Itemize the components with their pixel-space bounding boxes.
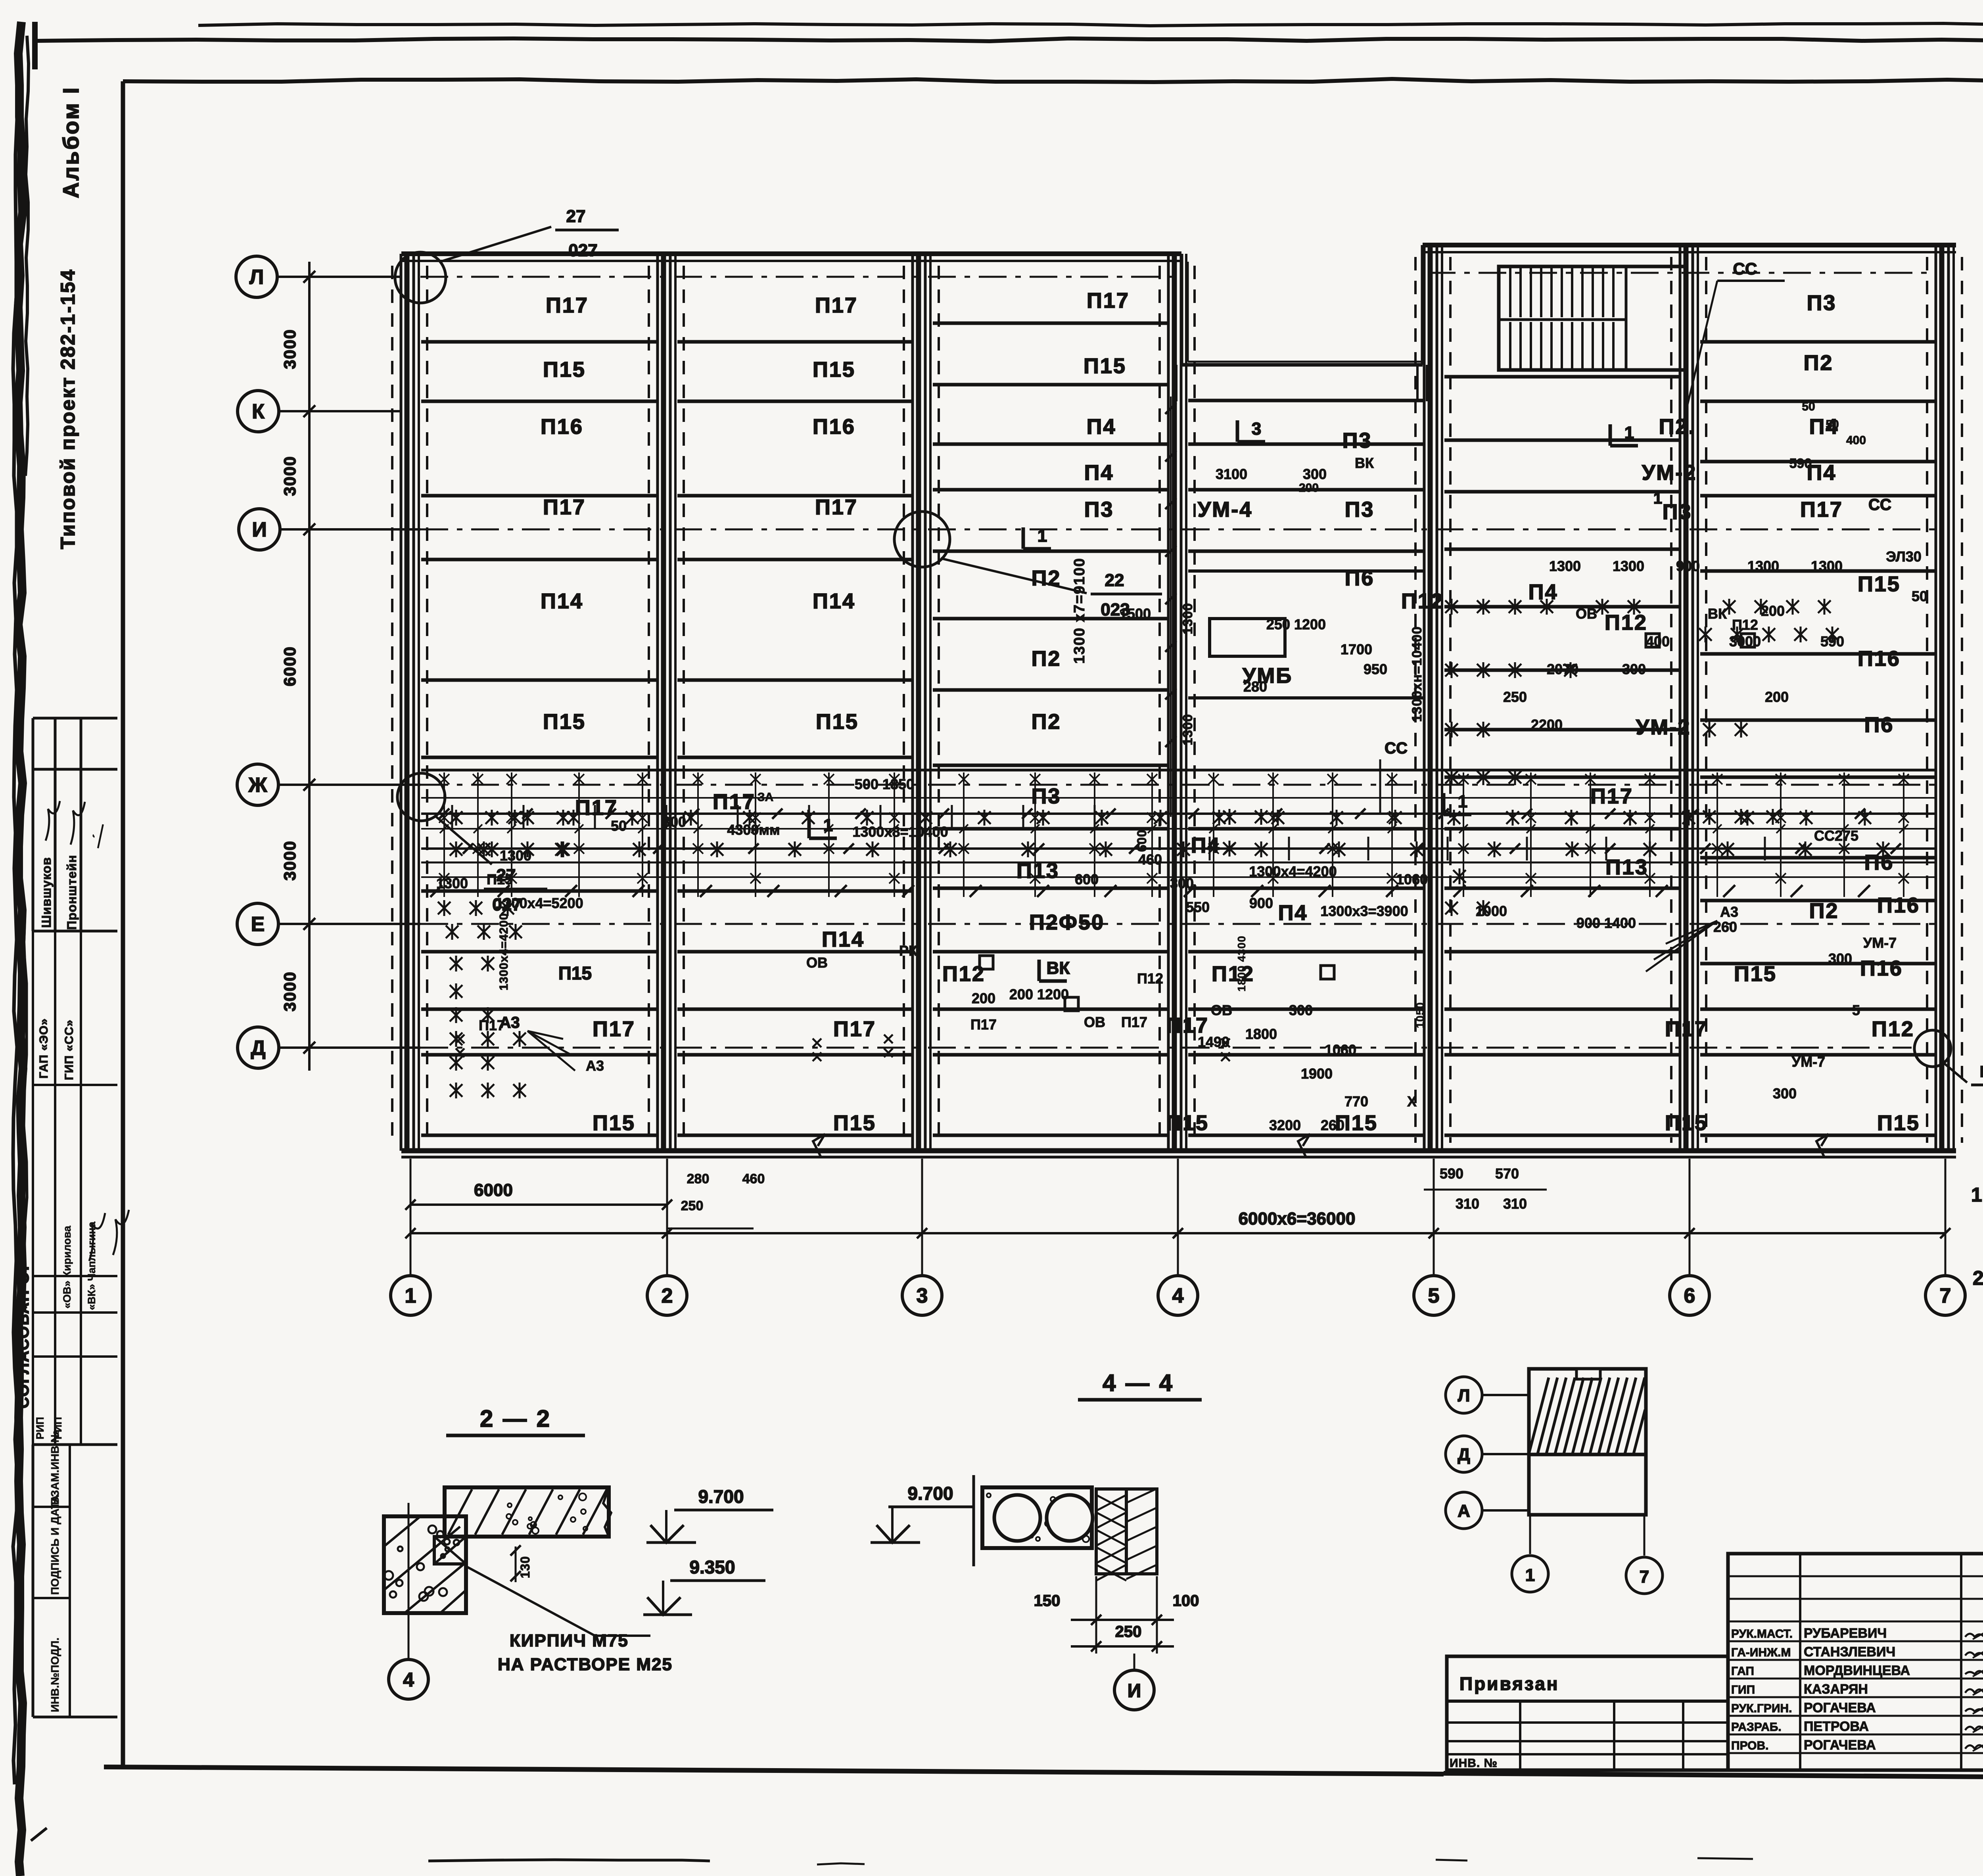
x cross pairs below D row — [813, 1039, 821, 1047]
svg-text:200: 200 — [1761, 603, 1785, 619]
svg-text:200: 200 — [972, 990, 995, 1006]
svg-text:П15: П15 — [1734, 962, 1777, 986]
slab joint lines bay 2 — [677, 340, 911, 344]
svg-text:300: 300 — [1303, 466, 1327, 482]
svg-text:3000: 3000 — [280, 840, 299, 880]
detail circle corner L1 with 27/027 — [395, 252, 446, 303]
plan top outer wall axis L segment 1 — [401, 251, 1181, 256]
svg-text:1.СЕЧЕНИЯ ПО МОНОЛИТНЫМ УЧА: 1.СЕЧЕНИЯ ПО МОНОЛИТНЫМ УЧАСТКАМ — [1971, 1184, 1983, 1206]
svg-text:П12: П12 — [1401, 589, 1444, 613]
svg-text:100: 100 — [1173, 1592, 1199, 1610]
svg-text:НА РАСТВОРЕ М25: НА РАСТВОРЕ М25 — [498, 1655, 673, 1674]
svg-text:А: А — [1458, 1501, 1470, 1521]
svg-text:50: 50 — [1802, 400, 1815, 413]
middle band extra thin lines — [421, 797, 1935, 799]
svg-text:П17: П17 — [1800, 498, 1843, 521]
svg-text:ГИП «СС»: ГИП «СС» — [63, 1019, 76, 1080]
svg-text:1300: 1300 — [1180, 603, 1195, 634]
svg-text:П12: П12 — [1212, 962, 1254, 986]
svg-text:2 — 2: 2 — 2 — [480, 1405, 551, 1432]
svg-text:СТАНЗЛЕВИЧ: СТАНЗЛЕВИЧ — [1804, 1644, 1895, 1659]
axis circle I — [239, 509, 280, 550]
svg-text:П16: П16 — [1860, 956, 1903, 980]
svg-text:И: И — [252, 518, 267, 541]
svg-text:2: 2 — [662, 1284, 673, 1307]
svg-text:Л: Л — [249, 266, 264, 289]
svg-text:П12: П12 — [1605, 611, 1647, 634]
key plan hatched upper — [1529, 1378, 1549, 1454]
svg-text:9.700: 9.700 — [698, 1486, 744, 1507]
svg-text:2070: 2070 — [1547, 661, 1578, 677]
svg-text:Альбом I: Альбом I — [58, 86, 83, 198]
key plan axis circle L2 — [1446, 1377, 1482, 1413]
svg-text:СС: СС — [1733, 259, 1757, 278]
svg-text:П15: П15 — [833, 1111, 876, 1135]
svg-text:1: 1 — [1624, 423, 1634, 443]
svg-text:МОРДВИНЦЕВА: МОРДВИНЦЕВА — [1804, 1663, 1910, 1678]
sheet inner frame — [121, 81, 125, 1769]
svg-text:УМ-2: УМ-2 — [1642, 461, 1697, 485]
svg-text:П14: П14 — [822, 927, 865, 951]
svg-text:П12: П12 — [1137, 970, 1163, 987]
svg-text:УМ-7: УМ-7 — [1863, 935, 1897, 951]
svg-text:А3: А3 — [586, 1058, 604, 1074]
wall axis 4 — [1167, 254, 1170, 1151]
svg-text:«ОВ» Кирилова: «ОВ» Кирилова — [61, 1225, 73, 1309]
svg-text:6: 6 — [1684, 1284, 1695, 1307]
svg-text:6000х6=36000: 6000х6=36000 — [1239, 1209, 1356, 1228]
svg-text:300: 300 — [1289, 1002, 1313, 1018]
detail circle right end axis D — [1914, 1030, 1951, 1067]
svg-text:РИП: РИП — [34, 1417, 46, 1439]
svg-text:П4: П4 — [1278, 901, 1308, 925]
svg-text:Шившуков: Шившуков — [39, 857, 54, 928]
svg-text:300: 300 — [1828, 950, 1852, 967]
svg-text:П3: П3 — [1345, 498, 1375, 521]
section 2-2 top slab — [445, 1487, 609, 1537]
key plan bottom leaders — [1529, 1515, 1531, 1554]
section cut marks inside plan — [1236, 420, 1239, 442]
svg-text:400: 400 — [1846, 434, 1866, 447]
svg-text:1300: 1300 — [1180, 714, 1195, 745]
svg-text:«ВК» Чаплыгина: «ВК» Чаплыгина — [86, 1221, 98, 1310]
A3 leader fan bay5 — [1666, 921, 1717, 944]
svg-text:1: 1 — [405, 1284, 416, 1307]
svg-text:П2: П2 — [1809, 899, 1839, 923]
svg-text:2200: 2200 — [1531, 717, 1563, 733]
svg-text:ОВ: ОВ — [1211, 1002, 1232, 1018]
svg-text:П17: П17 — [575, 796, 618, 820]
svg-text:550: 550 — [1186, 899, 1210, 915]
svg-text:СС: СС — [1868, 496, 1891, 514]
svg-text:570: 570 — [1495, 1165, 1519, 1182]
svg-text:300: 300 — [1622, 661, 1646, 677]
section 4-4 hollowcore slab — [982, 1487, 1092, 1548]
svg-text:П6: П6 — [1345, 566, 1375, 590]
svg-text:ОВ: ОВ — [1084, 1014, 1105, 1030]
svg-text:П12: П12 — [1732, 617, 1758, 633]
svg-text:950: 950 — [1364, 661, 1387, 677]
svg-text:ВК: ВК — [1047, 958, 1070, 978]
svg-text:П3: П3 — [1807, 291, 1837, 315]
svg-text:П15: П15 — [1166, 1111, 1209, 1135]
monolith UMB outline bay 4 — [1188, 569, 1423, 573]
svg-text:5: 5 — [1852, 1002, 1860, 1018]
svg-text:П6: П6 — [1864, 851, 1894, 874]
torn paper top edge — [198, 23, 1983, 26]
svg-text:150: 150 — [1034, 1592, 1061, 1610]
svg-text:Д: Д — [1458, 1445, 1470, 1464]
svg-text:П17: П17 — [815, 293, 858, 317]
svg-text:П17: П17 — [1087, 289, 1130, 312]
left axis dimension line — [308, 262, 311, 1071]
axis circle J — [237, 764, 278, 805]
plan top notch wall — [1180, 254, 1183, 365]
svg-text:310: 310 — [1503, 1196, 1527, 1212]
axis number circles 1-7 — [391, 1276, 430, 1315]
svg-text:9.700: 9.700 — [907, 1483, 953, 1504]
svg-text:1900: 1900 — [1301, 1065, 1333, 1082]
svg-text:22: 22 — [1105, 571, 1124, 590]
svg-text:ОВ: ОВ — [1576, 606, 1597, 622]
svg-text:П15: П15 — [1665, 1111, 1708, 1135]
svg-text:200: 200 — [1765, 689, 1789, 705]
svg-text:И1-3: И1-3 — [1980, 1063, 1983, 1081]
svg-text:П16: П16 — [1858, 647, 1901, 671]
svg-text:П17: П17 — [1665, 1017, 1708, 1041]
svg-text:2.ОБЩИЕ ПРИМЕЧАНИЯ СМ. ЛИСТ: 2.ОБЩИЕ ПРИМЕЧАНИЯ СМ. ЛИСТ 29 — [1973, 1267, 1983, 1289]
personnel table — [1728, 1554, 1983, 1770]
svg-text:К: К — [252, 400, 265, 423]
middle band vertical cross columns — [443, 774, 445, 897]
bottom dimension line bay1 — [410, 1203, 667, 1206]
svg-text:ИНВ.№ПОДЛ.: ИНВ.№ПОДЛ. — [49, 1638, 61, 1712]
svg-text:П2: П2 — [1032, 710, 1061, 734]
svg-text:1300х8=10400: 1300х8=10400 — [852, 824, 948, 840]
svg-text:П15: П15 — [1084, 354, 1126, 378]
svg-text:СОГЛАСОВАН О:: СОГЛАСОВАН О: — [15, 1265, 32, 1408]
svg-text:П16: П16 — [541, 415, 583, 439]
svg-text:027: 027 — [492, 895, 521, 914]
axis E dashdot line — [420, 923, 1935, 925]
wall axis 6 — [1679, 245, 1682, 1151]
svg-text:4 — 4: 4 — 4 — [1103, 1370, 1174, 1396]
svg-text:1: 1 — [1525, 1566, 1535, 1585]
privyazan table — [1447, 1656, 1728, 1770]
svg-text:ПРОВ.: ПРОВ. — [1731, 1739, 1769, 1752]
svg-text:3: 3 — [917, 1284, 928, 1307]
svg-text:П17: П17 — [970, 1016, 997, 1033]
slab joint lines bay 6 — [1700, 340, 1935, 344]
svg-text:П17: П17 — [546, 293, 589, 317]
plan bottom outer wall — [401, 1148, 1956, 1154]
wall axis 7 — [1935, 245, 1937, 1151]
axis circle K — [238, 391, 279, 432]
svg-text:РАЗРАБ.: РАЗРАБ. — [1731, 1721, 1782, 1734]
svg-text:1060: 1060 — [1325, 1042, 1356, 1058]
svg-text:50: 50 — [1826, 418, 1839, 431]
svg-text:900 1400: 900 1400 — [1576, 915, 1636, 931]
svg-text:СС: СС — [1385, 740, 1408, 757]
svg-text:П17: П17 — [815, 495, 858, 519]
svg-text:П2: П2 — [1032, 647, 1061, 671]
svg-text:50: 50 — [1912, 588, 1927, 604]
svg-text:КАЗАРЯН: КАЗАРЯН — [1804, 1682, 1868, 1697]
svg-text:1300х4=4200: 1300х4=4200 — [497, 913, 510, 990]
svg-text:3000: 3000 — [280, 456, 299, 496]
svg-text:П13: П13 — [1016, 859, 1059, 883]
slab joint lines bay 1 — [421, 340, 656, 344]
svg-text:ГИП: ГИП — [1731, 1683, 1755, 1696]
svg-text:П17: П17 — [713, 790, 756, 814]
svg-text:Е: Е — [251, 913, 265, 936]
margin stamp table upper — [33, 717, 117, 720]
svg-text:П3: П3 — [1663, 500, 1692, 524]
svg-text:900: 900 — [1249, 895, 1273, 911]
svg-text:УМ-2: УМ-2 — [1636, 715, 1691, 739]
svg-text:П4: П4 — [1087, 415, 1116, 439]
slab joint lines bay 4 — [1188, 399, 1423, 402]
svg-text:П3: П3 — [1084, 498, 1114, 521]
tick marks cluster near axis4 vertical chain — [1165, 403, 1176, 414]
svg-text:9.350: 9.350 — [689, 1557, 735, 1577]
svg-text:ВК: ВК — [1708, 606, 1727, 622]
svg-text:3: 3 — [1252, 419, 1261, 439]
svg-text:П2Ф50: П2Ф50 — [1029, 910, 1105, 934]
svg-text:П15: П15 — [816, 710, 859, 734]
svg-text:1050: 1050 — [1414, 1002, 1426, 1028]
bay5-6 extra star rows — [1699, 628, 1712, 641]
monolith star marks left lower — [450, 1056, 462, 1069]
svg-text:6000: 6000 — [474, 1180, 513, 1200]
svg-text:П16: П16 — [813, 415, 855, 439]
svg-text:А3: А3 — [499, 1014, 520, 1031]
axis L dashdot line — [420, 276, 1181, 278]
svg-text:ПЕТРОВА: ПЕТРОВА — [1804, 1719, 1869, 1734]
svg-text:1700: 1700 — [1341, 641, 1372, 657]
svg-text:РУК.ГРИН.: РУК.ГРИН. — [1731, 1702, 1792, 1715]
svg-text:УМ-7: УМ-7 — [1792, 1054, 1825, 1070]
key plan rectangle — [1529, 1369, 1646, 1515]
svg-text:200: 200 — [1299, 481, 1319, 494]
svg-text:460: 460 — [1138, 851, 1162, 868]
section 2-2 brick leader — [466, 1566, 595, 1636]
svg-text:П17: П17 — [1590, 784, 1633, 808]
key plan axis circle D2 — [1446, 1436, 1482, 1472]
svg-text:250: 250 — [1503, 689, 1527, 705]
section 2-2 left concrete block — [384, 1516, 466, 1613]
extra tick rows middle band — [1184, 885, 1196, 897]
svg-text:П2: П2 — [1804, 351, 1833, 375]
svg-text:3200: 3200 — [1269, 1117, 1301, 1133]
svg-text:027: 027 — [568, 241, 597, 260]
wall axis 1 — [400, 254, 403, 1151]
svg-text:1800 4300: 1800 4300 — [1235, 935, 1248, 991]
svg-text:ГА-ИНЖ.М: ГА-ИНЖ.М — [1731, 1646, 1791, 1659]
detail circle axis3 22/023 — [894, 512, 950, 567]
svg-text:П15: П15 — [558, 963, 592, 983]
margin narrow strip inv table — [33, 1443, 117, 1446]
svg-text:Привязан: Привязан — [1459, 1673, 1559, 1694]
svg-text:П14: П14 — [541, 589, 583, 613]
section 2-2 centerline and circle 4 — [408, 1503, 410, 1659]
svg-text:1: 1 — [823, 816, 833, 835]
svg-text:250: 250 — [681, 1198, 704, 1213]
svg-text:310: 310 — [1456, 1196, 1479, 1212]
wall axis 2 — [656, 254, 659, 1151]
svg-text:770: 770 — [1344, 1093, 1368, 1110]
section 4-4 wall diagonal part — [1126, 1489, 1157, 1574]
svg-text:СС275: СС275 — [1814, 828, 1858, 844]
svg-text:27: 27 — [566, 207, 586, 226]
axis circle E — [237, 903, 278, 945]
svg-text:3000: 3000 — [280, 971, 299, 1011]
bottom axis extension lines — [410, 1159, 412, 1275]
svg-text:П15: П15 — [543, 358, 586, 381]
monolith star marks axis5 columns — [1445, 600, 1458, 613]
section 4-4 wall crosshatch part — [1096, 1489, 1126, 1574]
svg-text:260: 260 — [1321, 1117, 1344, 1133]
svg-text:ЭЛ30: ЭЛ30 — [1886, 548, 1922, 565]
svg-text:РУК.МАСТ.: РУК.МАСТ. — [1731, 1627, 1793, 1640]
svg-text:РОГАЧЕВА: РОГАЧЕВА — [1804, 1700, 1876, 1715]
extra vertical tick strokes middle band — [451, 805, 453, 829]
wall axis 3 — [911, 254, 914, 1151]
svg-text:1300: 1300 — [1613, 558, 1644, 574]
slab joint lines bay 5 — [1444, 375, 1679, 379]
svg-text:1060: 1060 — [1396, 871, 1428, 887]
svg-text:РУБАРЕВИЧ: РУБАРЕВИЧ — [1804, 1626, 1887, 1641]
svg-text:250 1200: 250 1200 — [1266, 616, 1326, 632]
svg-text:900: 900 — [1676, 558, 1700, 574]
svg-text:ВК: ВК — [1355, 455, 1374, 471]
plan bottom wall break marks — [813, 1134, 825, 1157]
svg-text:П15: П15 — [813, 358, 855, 381]
svg-text:Пронштейн: Пронштейн — [65, 855, 79, 930]
svg-text:300: 300 — [1773, 1085, 1797, 1102]
svg-text:П2.: П2. — [1659, 415, 1696, 439]
margin GAP GIP cells — [32, 931, 34, 1085]
torn paper left edge — [18, 22, 23, 1876]
svg-text:ЗА: ЗА — [758, 791, 773, 804]
svg-text:П16: П16 — [1877, 893, 1920, 917]
svg-text:КИРПИЧ М75: КИРПИЧ М75 — [510, 1631, 629, 1650]
bottom partial rough line — [428, 1860, 710, 1861]
slab joint lines bay 3 — [933, 322, 1167, 325]
svg-text:Д: Д — [251, 1037, 265, 1060]
svg-text:П17: П17 — [833, 1017, 876, 1041]
detail circle JD with 27/027 — [397, 773, 445, 821]
key plan top notch — [1576, 1369, 1600, 1379]
star cluster below E axis bay1 — [450, 1009, 462, 1021]
svg-text:1: 1 — [1653, 490, 1662, 507]
svg-text:П6: П6 — [1864, 713, 1894, 737]
svg-text:Х: Х — [1407, 1093, 1417, 1110]
svg-text:П4: П4 — [1528, 580, 1558, 604]
svg-text:УМ-4: УМ-4 — [1198, 498, 1253, 521]
svg-text:ПОДПИСЬ И ДАТА: ПОДПИСЬ И ДАТА — [49, 1495, 61, 1595]
svg-text:1000: 1000 — [1475, 903, 1507, 919]
svg-text:Л: Л — [1458, 1386, 1470, 1405]
svg-text:3000: 3000 — [280, 329, 299, 369]
svg-text:023: 023 — [1101, 600, 1130, 619]
svg-text:П3: П3 — [1342, 429, 1372, 452]
svg-text:РОГАЧЕВА: РОГАЧЕВА — [1804, 1738, 1876, 1753]
stairwell block — [1499, 266, 1685, 370]
svg-text:1800: 1800 — [1245, 1026, 1277, 1042]
corridor walls at axis J — [421, 769, 1935, 772]
svg-text:1300: 1300 — [1747, 558, 1779, 574]
svg-text:27: 27 — [497, 866, 516, 885]
svg-text:РК: РК — [899, 943, 918, 959]
axis circle D — [238, 1027, 279, 1068]
svg-text:ОВ: ОВ — [806, 954, 828, 971]
svg-text:ИНВ. №: ИНВ. № — [1450, 1757, 1498, 1770]
svg-text:1300хн=10400: 1300хн=10400 — [1410, 626, 1425, 722]
svg-text:1: 1 — [1458, 792, 1467, 811]
svg-text:7: 7 — [1640, 1567, 1649, 1587]
wall axis 5 — [1423, 245, 1426, 1151]
svg-text:5: 5 — [1428, 1284, 1440, 1307]
svg-text:П4: П4 — [1084, 461, 1114, 485]
svg-text:1300 х7=9100: 1300 х7=9100 — [1071, 558, 1088, 664]
svg-text:280: 280 — [687, 1171, 710, 1186]
dense dimension band marks — [450, 811, 462, 824]
svg-text:7: 7 — [1940, 1284, 1951, 1307]
svg-text:460: 460 — [742, 1171, 765, 1186]
margin soglasovano block — [33, 1084, 117, 1086]
svg-text:ГАП: ГАП — [1731, 1665, 1754, 1678]
svg-text:И: И — [1128, 1681, 1141, 1702]
svg-text:ВЗАМ.ИНВ.№: ВЗАМ.ИНВ.№ — [49, 1430, 61, 1505]
axis I dashdot line — [420, 529, 1935, 531]
section 4-4 centerline circle I — [1133, 1654, 1135, 1670]
svg-text:600: 600 — [1135, 830, 1149, 852]
svg-text:1300х3=3900: 1300х3=3900 — [1320, 903, 1408, 919]
svg-text:130: 130 — [518, 1556, 532, 1578]
axis J dashdot line — [420, 784, 1935, 786]
svg-text:1300: 1300 — [1549, 558, 1581, 574]
key plan axis circle A2 — [1446, 1492, 1482, 1529]
extra star columns left bays — [450, 811, 462, 824]
svg-text:200 1200: 200 1200 — [1009, 986, 1069, 1002]
svg-text:П15: П15 — [593, 1111, 635, 1135]
svg-text:280: 280 — [1243, 678, 1267, 695]
section 2-2 crosshatch key square — [434, 1537, 466, 1564]
svg-text:А3: А3 — [1720, 904, 1738, 920]
axis circle L — [236, 256, 277, 297]
svg-text:250: 250 — [1115, 1623, 1142, 1640]
svg-text:590: 590 — [1789, 456, 1812, 471]
svg-text:4: 4 — [403, 1669, 414, 1691]
svg-text:Типовой проект 282-1-154: Типовой проект 282-1-154 — [57, 268, 79, 549]
svg-text:П15: П15 — [543, 710, 586, 734]
svg-text:1300: 1300 — [1811, 558, 1843, 574]
svg-text:П17: П17 — [543, 495, 586, 519]
svg-text:6000: 6000 — [280, 646, 299, 686]
svg-text:ГАП «ЭО»: ГАП «ЭО» — [37, 1018, 50, 1079]
plan top outer wall segment 2 — [1423, 243, 1956, 247]
svg-text:П12: П12 — [1872, 1017, 1914, 1041]
svg-text:П17: П17 — [1121, 1014, 1147, 1030]
svg-text:П17: П17 — [593, 1017, 635, 1041]
svg-text:590: 590 — [1440, 1165, 1463, 1182]
bottom overall dimension line — [410, 1232, 1945, 1234]
svg-text:3100: 3100 — [1216, 466, 1247, 482]
svg-text:П14: П14 — [813, 589, 855, 613]
small equipment squares — [1065, 997, 1078, 1011]
svg-text:П15: П15 — [1877, 1111, 1920, 1135]
